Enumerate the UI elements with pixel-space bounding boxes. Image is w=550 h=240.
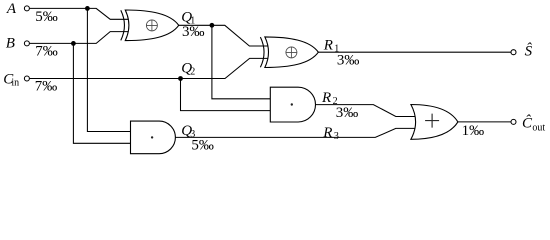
junction B: [71, 41, 76, 46]
wire Q2 branch down to AND R2 lower input: [181, 79, 271, 111]
svg-text:B: B: [6, 35, 15, 51]
wire R2 to OR upper input: [316, 105, 416, 117]
wire Q1 to XOR2 upper input: [179, 25, 268, 46]
xor gate XOR1 (A xor B -> Q1): [121, 10, 179, 41]
junction Q1: [210, 23, 215, 28]
input terminal Cin: [24, 76, 29, 81]
svg-text:3: 3: [334, 131, 339, 142]
output terminal Cout: [511, 119, 516, 124]
and symbol of AND2: [151, 136, 153, 138]
input terminal A: [24, 6, 29, 11]
svg-text:R: R: [321, 90, 331, 106]
svg-text:R: R: [323, 37, 333, 53]
svg-text:A: A: [6, 1, 17, 17]
svg-text:out: out: [532, 123, 545, 134]
svg-text:R: R: [322, 125, 332, 141]
wire Cin to XOR2 lower input: [30, 58, 269, 78]
junction A: [85, 6, 90, 11]
xor symbol of XOR2: [286, 47, 297, 58]
wire Cout to terminal: [458, 121, 511, 123]
and gate AND2 (A and B -> Q3): [131, 121, 176, 154]
wire R1 to S terminal: [318, 51, 511, 53]
svg-text:7‰: 7‰: [35, 43, 58, 59]
wire Q1 branch down to AND R2 upper input: [212, 25, 270, 99]
junction Q2: [178, 76, 183, 81]
xor symbol of XOR1: [146, 20, 157, 31]
wire B branch down to AND Q3 lower input: [73, 43, 130, 143]
or gate OR1 (R2 or R3 -> Cout): [411, 105, 458, 140]
or symbol plus: [425, 114, 439, 128]
xor gate XOR2 (Q1 xor Q2 -> R1): [260, 37, 318, 68]
svg-text:7‰: 7‰: [35, 78, 58, 94]
output terminal S: [511, 50, 516, 55]
svg-text:3‰: 3‰: [337, 52, 360, 68]
svg-text:3‰: 3‰: [336, 105, 359, 121]
wire B to XOR1 lower input: [30, 32, 129, 44]
svg-text:Ĉ: Ĉ: [522, 115, 533, 132]
and gate AND1 (Q1 and Q2 -> R2): [270, 87, 315, 122]
wire A to XOR1 upper input: [30, 8, 129, 19]
svg-text:2: 2: [190, 67, 195, 78]
svg-text:5‰: 5‰: [35, 9, 58, 25]
wire Q3 / R3 to OR lower input: [175, 128, 415, 137]
svg-text:1‰: 1‰: [462, 123, 485, 139]
svg-text:5‰: 5‰: [191, 138, 214, 154]
svg-text:3‰: 3‰: [182, 24, 205, 40]
and symbol of AND1: [291, 103, 293, 105]
svg-text:Ŝ: Ŝ: [525, 42, 533, 59]
wire A branch down to AND Q3 upper input: [87, 8, 130, 131]
svg-text:in: in: [11, 77, 19, 88]
input terminal B: [24, 41, 29, 46]
